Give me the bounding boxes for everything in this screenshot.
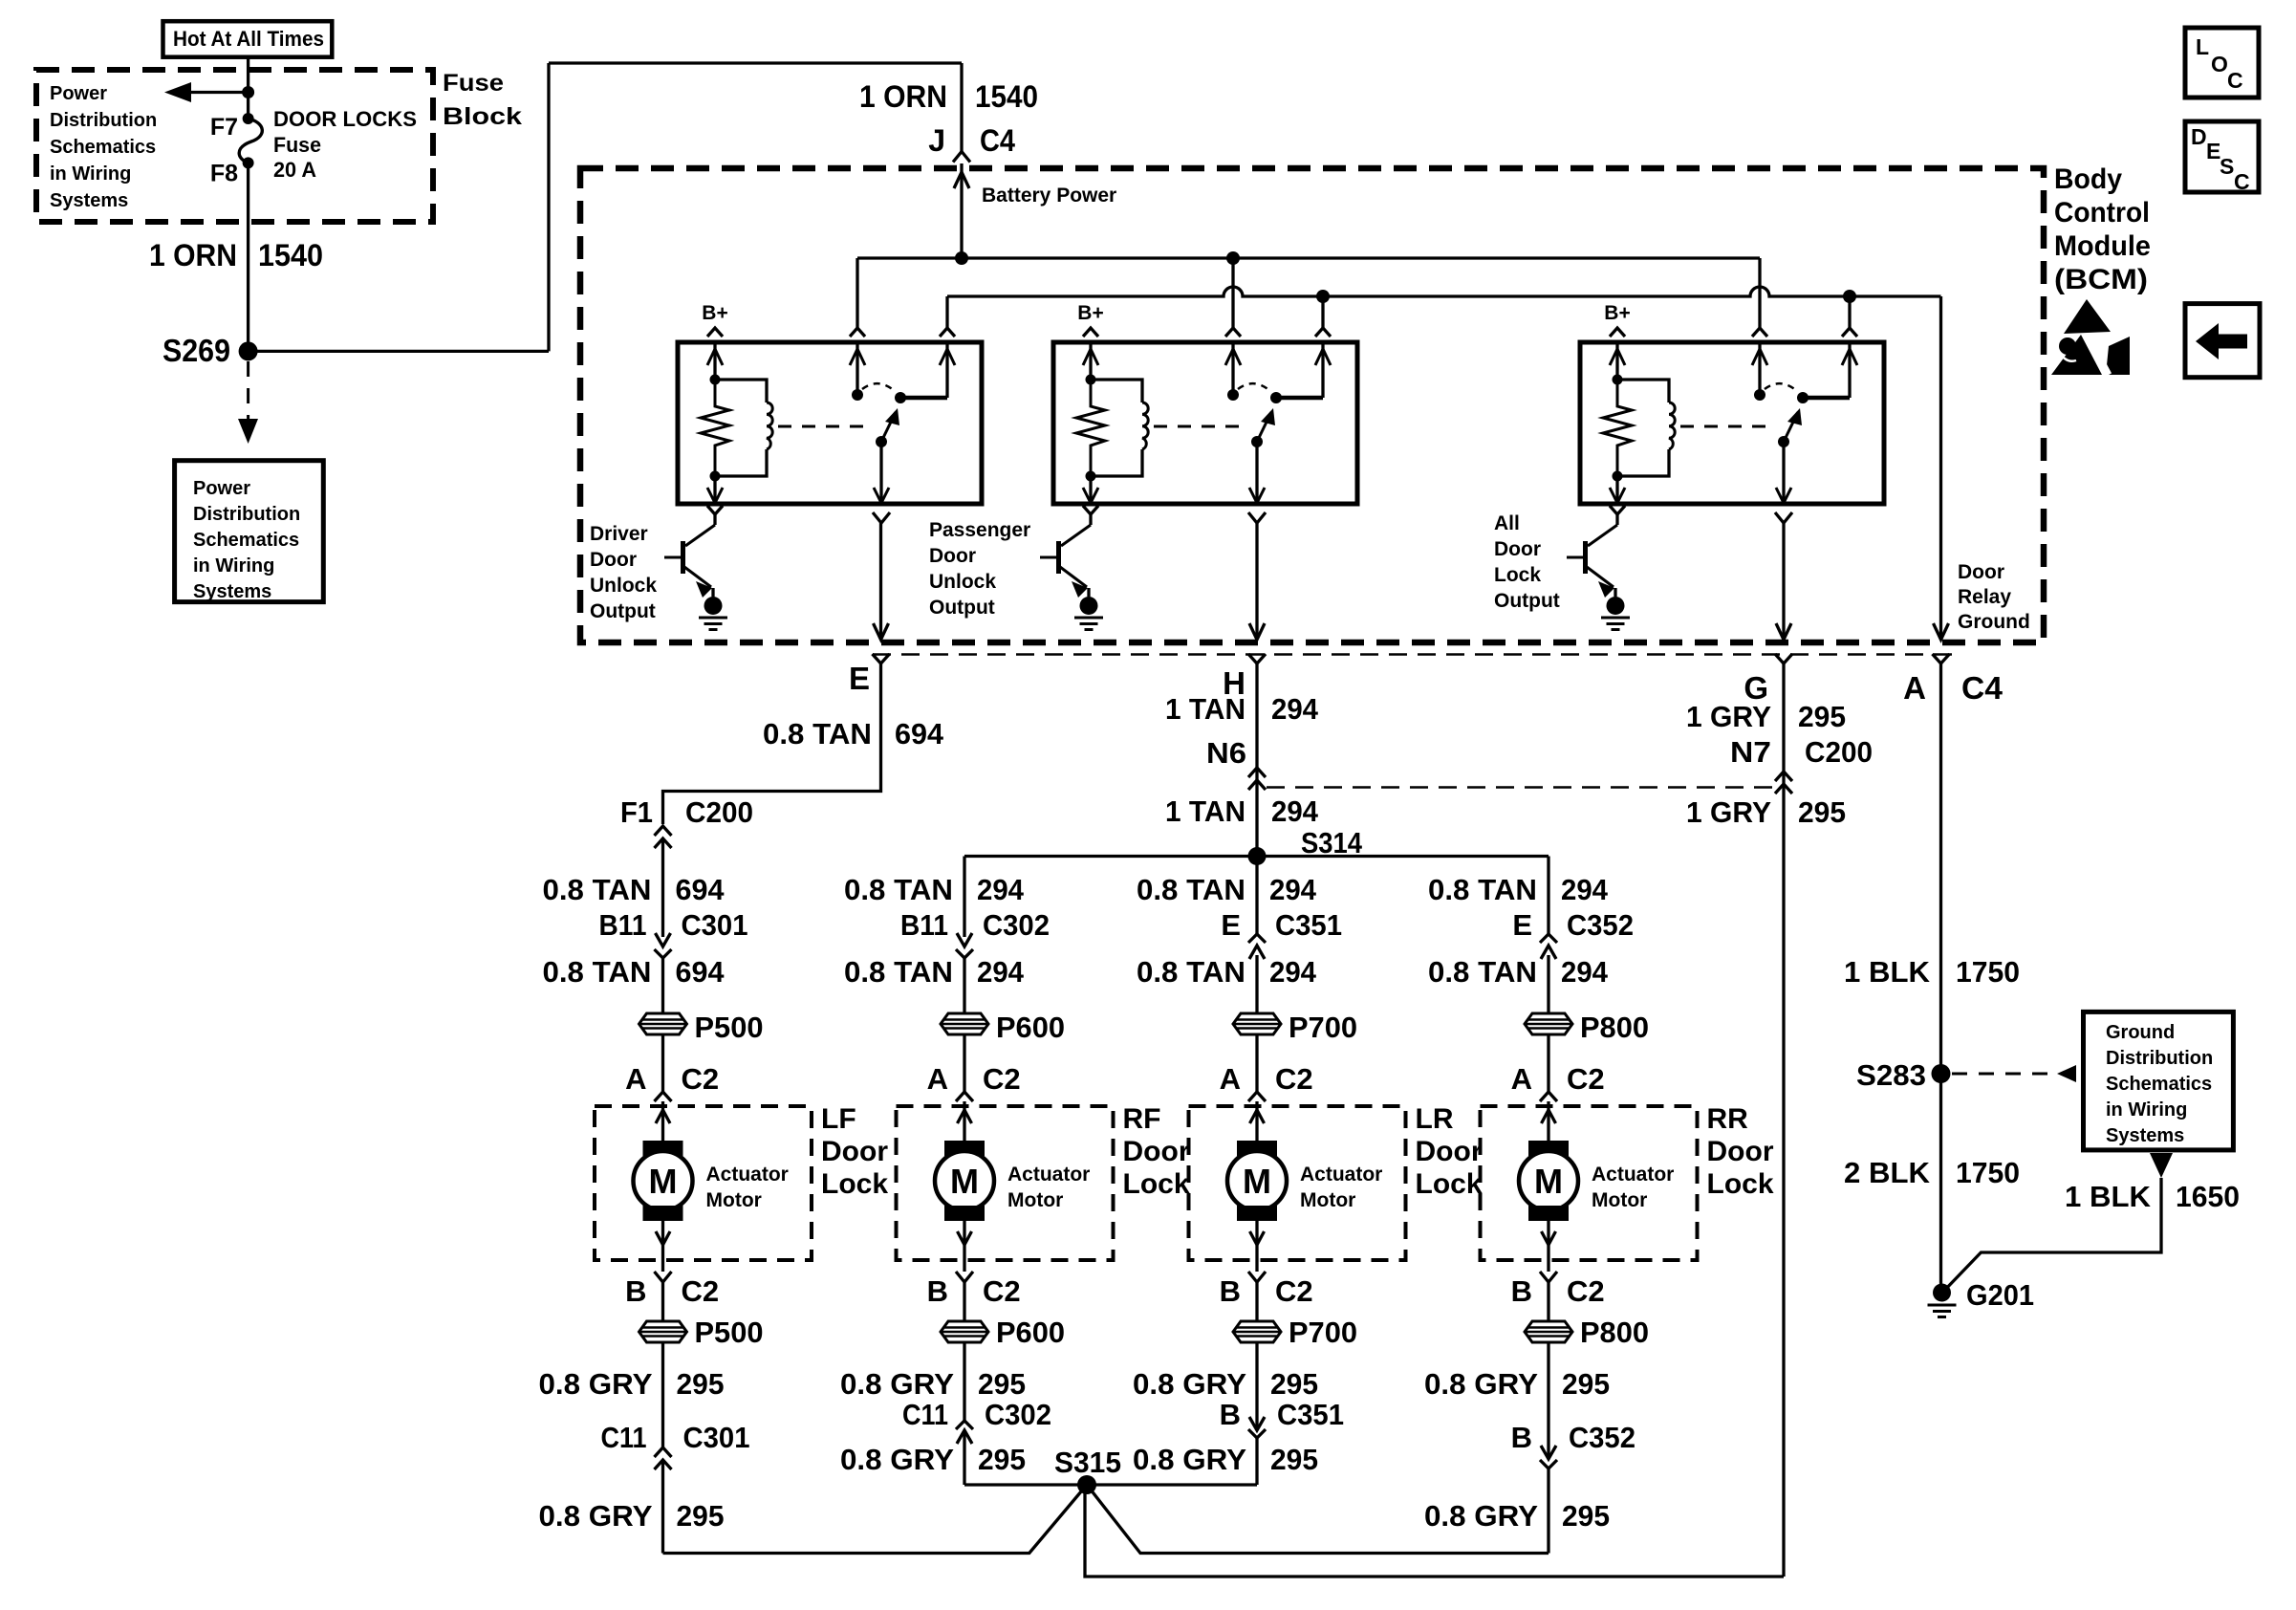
svg-text:Power: Power bbox=[50, 83, 107, 104]
svg-text:DOOR LOCKS: DOOR LOCKS bbox=[273, 107, 417, 131]
svg-text:295: 295 bbox=[1270, 1367, 1318, 1401]
svg-text:Lock: Lock bbox=[1494, 564, 1541, 586]
svg-text:2 BLK: 2 BLK bbox=[1844, 1156, 1931, 1189]
svg-text:C2: C2 bbox=[682, 1274, 720, 1308]
svg-text:Motor: Motor bbox=[706, 1189, 762, 1211]
common output chevron relay 3 bbox=[1775, 512, 1792, 523]
wire P600 to door lock connector bbox=[963, 1034, 965, 1092]
ground G201 bbox=[1933, 1284, 1951, 1302]
svg-text:0.8 TAN: 0.8 TAN bbox=[1428, 873, 1537, 906]
svg-text:294: 294 bbox=[1269, 873, 1317, 906]
svg-text:C200: C200 bbox=[1805, 735, 1873, 769]
svg-text:0.8 TAN: 0.8 TAN bbox=[1137, 955, 1245, 989]
svg-text:0.8 TAN: 0.8 TAN bbox=[1428, 955, 1537, 989]
svg-text:B: B bbox=[1220, 1398, 1241, 1431]
svg-text:P500: P500 bbox=[695, 1011, 764, 1044]
svg-text:D: D bbox=[2191, 124, 2207, 149]
svg-text:O: O bbox=[2211, 52, 2228, 76]
svg-text:in Wiring: in Wiring bbox=[2106, 1099, 2187, 1120]
svg-text:E: E bbox=[1512, 908, 1532, 942]
svg-text:Block: Block bbox=[443, 103, 522, 130]
connector C2 terminal B (branch 2) bbox=[956, 1272, 973, 1282]
svg-text:B: B bbox=[1220, 1274, 1241, 1308]
motor output wire (branch 2) bbox=[963, 1221, 965, 1272]
ground rail down to BCM pin A bbox=[1939, 296, 1942, 640]
svg-text:0.8 GRY: 0.8 GRY bbox=[539, 1367, 653, 1401]
wire relay1 common to pin E bbox=[879, 523, 882, 639]
pin A chevron bbox=[1933, 654, 1950, 664]
coil output chevron relay 1 bbox=[707, 506, 723, 514]
pin G chevron bbox=[1775, 654, 1792, 664]
svg-text:C4: C4 bbox=[1961, 670, 2004, 706]
svg-text:295: 295 bbox=[1562, 1367, 1610, 1401]
triangle connector below ground distribution box bbox=[2150, 1153, 2173, 1178]
ESD sensitivity symbol bbox=[2051, 335, 2102, 375]
svg-text:LR: LR bbox=[1416, 1103, 1454, 1135]
svg-text:M: M bbox=[649, 1162, 678, 1201]
svg-text:Fuse: Fuse bbox=[443, 70, 504, 97]
svg-text:Output: Output bbox=[590, 600, 656, 622]
svg-text:0.8 TAN: 0.8 TAN bbox=[543, 955, 652, 989]
dashed reference arrow S283 to ground distribution box bbox=[1952, 1073, 2057, 1076]
svg-text:F8: F8 bbox=[210, 161, 238, 187]
svg-text:294: 294 bbox=[977, 955, 1025, 989]
svg-text:Unlock: Unlock bbox=[590, 575, 657, 597]
svg-text:C302: C302 bbox=[983, 908, 1050, 942]
rail end down to relay1 contact pin bbox=[945, 296, 948, 328]
svg-text:0.8 GRY: 0.8 GRY bbox=[840, 1367, 954, 1401]
svg-text:1 GRY: 1 GRY bbox=[1686, 700, 1771, 733]
reference box Power Distribution Schematics in Wiring Systems bbox=[175, 461, 324, 602]
svg-text:Relay: Relay bbox=[1958, 586, 2011, 608]
motor output wire (branch 3) bbox=[1255, 1221, 1258, 1272]
svg-text:A: A bbox=[1220, 1062, 1241, 1096]
svg-text:0.8 TAN: 0.8 TAN bbox=[844, 955, 953, 989]
contact pin chevron relay 3 bbox=[1842, 328, 1857, 337]
label box "Hot At All Times" bbox=[163, 21, 333, 57]
svg-text:L: L bbox=[2196, 34, 2209, 59]
svg-text:M: M bbox=[950, 1162, 979, 1201]
S315 collection rail bbox=[964, 1483, 1257, 1486]
wire pin E down-left to C200 F1 bbox=[663, 664, 881, 824]
svg-text:RF: RF bbox=[1123, 1103, 1161, 1135]
inline connector P600 (upper) bbox=[941, 1013, 988, 1034]
wire relay3 common to pin G bbox=[1782, 523, 1785, 639]
svg-text:All: All bbox=[1494, 512, 1520, 534]
branch1 return to S315 bbox=[663, 1485, 1088, 1554]
svg-text:P600: P600 bbox=[996, 1316, 1065, 1349]
svg-text:1750: 1750 bbox=[1956, 1156, 2020, 1189]
svg-text:M: M bbox=[1243, 1162, 1271, 1201]
svg-text:Ground: Ground bbox=[1958, 611, 2030, 633]
svg-text:C11: C11 bbox=[601, 1421, 647, 1454]
svg-text:C: C bbox=[2227, 68, 2243, 93]
svg-text:Door: Door bbox=[1494, 538, 1541, 560]
svg-text:295: 295 bbox=[1798, 795, 1846, 829]
svg-text:0.8 TAN: 0.8 TAN bbox=[543, 873, 652, 906]
svg-text:LF: LF bbox=[821, 1103, 856, 1135]
actuator motor M (branch 3) bbox=[1255, 1101, 1258, 1141]
svg-text:C352: C352 bbox=[1567, 908, 1634, 942]
wire P700 to door lock connector bbox=[1255, 1034, 1258, 1092]
svg-text:Unlock: Unlock bbox=[929, 571, 996, 593]
svg-text:Power: Power bbox=[193, 478, 250, 499]
svg-text:Door: Door bbox=[1707, 1136, 1774, 1167]
svg-text:B: B bbox=[927, 1274, 948, 1308]
connector C2 terminal B (branch 1) bbox=[655, 1272, 672, 1282]
svg-text:Lock: Lock bbox=[1416, 1168, 1483, 1200]
svg-text:0.8 GRY: 0.8 GRY bbox=[1133, 1443, 1246, 1476]
svg-text:Motor: Motor bbox=[1592, 1189, 1647, 1211]
branch4 return to S315 bbox=[1087, 1485, 1549, 1554]
svg-text:S314: S314 bbox=[1301, 826, 1363, 859]
svg-text:0.8 GRY: 0.8 GRY bbox=[1133, 1367, 1246, 1401]
svg-text:C200: C200 bbox=[685, 795, 753, 829]
svg-text:Fuse: Fuse bbox=[273, 133, 321, 157]
svg-text:S283: S283 bbox=[1856, 1058, 1926, 1092]
svg-text:Lock: Lock bbox=[1123, 1168, 1190, 1200]
svg-text:A: A bbox=[1903, 670, 1926, 706]
door lock actuator dashed box (branch 2) bbox=[897, 1106, 1114, 1260]
svg-text:295: 295 bbox=[1270, 1443, 1318, 1476]
switch pin chevron relay 2 bbox=[1225, 328, 1241, 337]
svg-text:Actuator: Actuator bbox=[706, 1164, 789, 1186]
inline connector P500 (lower) bbox=[639, 1321, 687, 1342]
svg-text:Systems: Systems bbox=[50, 190, 128, 211]
wire J into BCM bbox=[960, 163, 963, 258]
svg-text:Schematics: Schematics bbox=[50, 137, 156, 158]
wire P800 to door lock connector bbox=[1547, 1034, 1549, 1092]
svg-text:1 ORN: 1 ORN bbox=[149, 238, 237, 272]
svg-text:Output: Output bbox=[1494, 590, 1560, 612]
svg-text:Output: Output bbox=[929, 597, 995, 619]
svg-text:B+: B+ bbox=[1077, 302, 1103, 324]
svg-text:294: 294 bbox=[1271, 692, 1319, 726]
svg-text:Actuator: Actuator bbox=[1007, 1164, 1090, 1186]
svg-text:Schematics: Schematics bbox=[2106, 1074, 2212, 1095]
junction dot to relay3 contact pin bbox=[1843, 290, 1856, 303]
svg-text:0.8 TAN: 0.8 TAN bbox=[763, 717, 872, 751]
svg-text:694: 694 bbox=[676, 955, 726, 989]
svg-text:B11: B11 bbox=[900, 908, 948, 942]
svg-text:1 BLK: 1 BLK bbox=[2065, 1180, 2152, 1213]
svg-text:295: 295 bbox=[677, 1367, 725, 1401]
connector C2 terminal B (branch 3) bbox=[1248, 1272, 1266, 1282]
passenger door unlock relay K2 bbox=[1053, 342, 1357, 504]
wire P500 to door lock connector bbox=[661, 1034, 664, 1092]
svg-text:Control: Control bbox=[2054, 197, 2150, 228]
svg-text:Actuator: Actuator bbox=[1592, 1164, 1674, 1186]
coil output chevron relay 3 bbox=[1610, 506, 1625, 514]
arrow to power distribution schematics (left) bbox=[189, 91, 249, 94]
door lock actuator dashed box (branch 1) bbox=[595, 1106, 812, 1260]
wire pin G down (1 GRY 295) bbox=[1782, 664, 1785, 1577]
svg-text:694: 694 bbox=[895, 717, 944, 751]
wire rail to relay3 switch pin bbox=[1758, 258, 1761, 328]
svg-text:Passenger: Passenger bbox=[929, 519, 1030, 541]
S314 distribution rail bbox=[964, 855, 1549, 858]
svg-text:Door: Door bbox=[1416, 1136, 1483, 1167]
pin E chevron bbox=[873, 654, 890, 664]
svg-text:1 BLK: 1 BLK bbox=[1844, 955, 1931, 989]
svg-text:Ground: Ground bbox=[2106, 1022, 2175, 1043]
svg-text:C2: C2 bbox=[682, 1062, 720, 1096]
svg-text:C301: C301 bbox=[682, 908, 748, 942]
svg-text:S269: S269 bbox=[162, 333, 230, 368]
svg-text:Lock: Lock bbox=[821, 1168, 888, 1200]
svg-text:in Wiring: in Wiring bbox=[50, 163, 131, 185]
svg-text:B: B bbox=[1511, 1421, 1532, 1454]
svg-text:Actuator: Actuator bbox=[1300, 1164, 1382, 1186]
svg-text:Distribution: Distribution bbox=[193, 504, 300, 525]
svg-text:C2: C2 bbox=[1275, 1274, 1313, 1308]
S315 to door relay ground wire bbox=[1085, 1485, 1784, 1577]
BCM dashed border bbox=[580, 168, 2044, 642]
inline connector P800 (lower) bbox=[1525, 1321, 1572, 1342]
svg-text:0.8 TAN: 0.8 TAN bbox=[1137, 873, 1245, 906]
connector C200 dashed face (N6-N7) bbox=[1267, 786, 1775, 789]
wire F8 to S269 - 1 ORN 1540 bbox=[247, 163, 249, 351]
svg-text:295: 295 bbox=[677, 1499, 725, 1533]
svg-text:P700: P700 bbox=[1289, 1316, 1357, 1349]
svg-text:B+: B+ bbox=[702, 302, 727, 324]
switch pin chevron relay 1 bbox=[850, 328, 865, 337]
svg-text:C301: C301 bbox=[683, 1421, 750, 1454]
wire rail to relay2 switch pin bbox=[1231, 258, 1234, 328]
svg-text:0.8 GRY: 0.8 GRY bbox=[1424, 1367, 1538, 1401]
svg-text:Hot At All Times: Hot At All Times bbox=[173, 27, 324, 51]
inline connector P800 (upper) bbox=[1525, 1013, 1572, 1034]
svg-text:Schematics: Schematics bbox=[193, 530, 299, 551]
svg-text:0.8 GRY: 0.8 GRY bbox=[539, 1499, 653, 1533]
all door lock output transistor Q3 bbox=[1567, 514, 1630, 630]
wire S269 to BCM battery feed bbox=[249, 350, 549, 353]
svg-text:C2: C2 bbox=[1567, 1062, 1605, 1096]
svg-text:N6: N6 bbox=[1206, 736, 1246, 770]
svg-text:294: 294 bbox=[977, 873, 1025, 906]
svg-text:P600: P600 bbox=[996, 1011, 1065, 1044]
common output chevron relay 1 bbox=[873, 512, 890, 523]
svg-text:294: 294 bbox=[1561, 955, 1609, 989]
svg-text:294: 294 bbox=[1269, 955, 1317, 989]
svg-text:Door: Door bbox=[929, 545, 976, 567]
junction dot battery feed bbox=[955, 251, 968, 265]
B+ chevron relay 2 bbox=[1083, 328, 1098, 337]
svg-text:P700: P700 bbox=[1289, 1011, 1357, 1044]
dashed arrow S269 down to power distribution box bbox=[247, 361, 249, 428]
svg-text:F7: F7 bbox=[210, 114, 238, 141]
svg-text:C302: C302 bbox=[985, 1398, 1051, 1431]
svg-text:C352: C352 bbox=[1569, 1421, 1635, 1454]
B+ chevron relay 3 bbox=[1610, 328, 1625, 337]
svg-text:694: 694 bbox=[676, 873, 726, 906]
sidebar box DESC bbox=[2185, 121, 2259, 192]
svg-text:Motor: Motor bbox=[1007, 1189, 1063, 1211]
svg-text:Door: Door bbox=[821, 1136, 888, 1167]
svg-text:1750: 1750 bbox=[1956, 955, 2020, 989]
junction dot to relay2 contact pin bbox=[1316, 290, 1330, 303]
actuator motor M (branch 4) bbox=[1547, 1101, 1549, 1141]
svg-text:B+: B+ bbox=[1604, 302, 1630, 324]
svg-text:C351: C351 bbox=[1275, 908, 1342, 942]
inline connector P700 (upper) bbox=[1233, 1013, 1281, 1034]
svg-text:Door: Door bbox=[1958, 561, 2004, 583]
svg-text:295: 295 bbox=[978, 1367, 1026, 1401]
svg-text:P500: P500 bbox=[695, 1316, 764, 1349]
svg-text:J: J bbox=[928, 123, 945, 158]
inline connector P700 (lower) bbox=[1233, 1321, 1281, 1342]
svg-text:Distribution: Distribution bbox=[2106, 1048, 2213, 1069]
svg-text:E: E bbox=[1221, 908, 1241, 942]
svg-text:295: 295 bbox=[1562, 1499, 1610, 1533]
svg-text:B: B bbox=[1511, 1274, 1532, 1308]
svg-text:1 TAN: 1 TAN bbox=[1165, 692, 1245, 726]
svg-text:Body: Body bbox=[2054, 163, 2122, 195]
svg-text:Systems: Systems bbox=[2106, 1125, 2184, 1146]
svg-text:Battery Power: Battery Power bbox=[982, 185, 1116, 207]
wire from Hot At All Times into fuse block bbox=[247, 57, 249, 119]
svg-text:1540: 1540 bbox=[258, 238, 323, 272]
switch pin chevron relay 3 bbox=[1752, 328, 1767, 337]
svg-text:B11: B11 bbox=[599, 908, 647, 942]
sidebar box LOC bbox=[2185, 28, 2259, 98]
svg-text:RR: RR bbox=[1707, 1103, 1749, 1135]
svg-text:S315: S315 bbox=[1054, 1446, 1121, 1479]
B+ chevron relay 1 bbox=[707, 328, 723, 337]
svg-text:B: B bbox=[625, 1274, 646, 1308]
svg-text:1 GRY: 1 GRY bbox=[1686, 795, 1771, 829]
connector C4 dashed face line bbox=[873, 653, 1956, 656]
svg-text:C2: C2 bbox=[983, 1062, 1021, 1096]
inline connector P500 (upper) bbox=[639, 1013, 687, 1034]
svg-text:M: M bbox=[1534, 1162, 1563, 1201]
svg-text:0.8 GRY: 0.8 GRY bbox=[1424, 1499, 1538, 1533]
svg-text:C2: C2 bbox=[1567, 1274, 1605, 1308]
svg-text:A: A bbox=[1511, 1062, 1532, 1096]
connector C2 terminal B (branch 4) bbox=[1540, 1272, 1557, 1282]
svg-text:Module: Module bbox=[2054, 230, 2151, 262]
svg-text:Door: Door bbox=[590, 549, 637, 571]
wire relay2 common to pin H bbox=[1255, 523, 1258, 639]
connector chevron J/C4 bbox=[953, 152, 970, 163]
svg-text:(BCM): (BCM) bbox=[2054, 264, 2148, 295]
svg-text:C2: C2 bbox=[1275, 1062, 1313, 1096]
svg-text:Distribution: Distribution bbox=[50, 110, 157, 131]
svg-text:A: A bbox=[927, 1062, 948, 1096]
svg-text:C2: C2 bbox=[983, 1274, 1021, 1308]
svg-text:0.8 GRY: 0.8 GRY bbox=[840, 1443, 954, 1476]
svg-text:295: 295 bbox=[1798, 700, 1846, 733]
svg-text:C4: C4 bbox=[980, 123, 1015, 158]
reference box Ground Distribution Schematics in Wiring Systems bbox=[2084, 1012, 2234, 1150]
node on feed wire bbox=[242, 86, 254, 98]
wire pin A down to G201 (1 BLK 1750) bbox=[1939, 664, 1942, 1293]
svg-text:1 TAN: 1 TAN bbox=[1165, 794, 1245, 828]
door relay ground arrow at pin A bbox=[1934, 623, 1949, 640]
actuator motor M (branch 1) bbox=[661, 1101, 664, 1141]
wire 1 BLK 1650 from ground distribution to G201 bbox=[1942, 1178, 2161, 1293]
all door lock relay K3 bbox=[1580, 342, 1884, 504]
door relay ground rail (lower) with hops bbox=[947, 287, 1941, 296]
svg-text:C351: C351 bbox=[1277, 1398, 1344, 1431]
svg-text:E: E bbox=[849, 661, 870, 696]
inline connector P600 (lower) bbox=[941, 1321, 988, 1342]
pin H chevron bbox=[1248, 654, 1266, 664]
contact pin chevron relay 2 bbox=[1315, 328, 1331, 337]
svg-text:F1: F1 bbox=[620, 795, 653, 829]
svg-text:1540: 1540 bbox=[975, 79, 1038, 114]
svg-text:1650: 1650 bbox=[2176, 1180, 2240, 1213]
contact pin chevron relay 1 bbox=[940, 328, 955, 337]
junction dot to relay2 switch bbox=[1226, 251, 1240, 265]
fuse block dashed box bbox=[36, 70, 433, 222]
svg-text:in Wiring: in Wiring bbox=[193, 555, 274, 577]
svg-text:A: A bbox=[625, 1062, 646, 1096]
battery power rail (upper) bbox=[857, 256, 1760, 259]
door lock actuator dashed box (branch 4) bbox=[1481, 1106, 1698, 1260]
svg-text:C: C bbox=[2234, 169, 2250, 194]
svg-text:Door: Door bbox=[1123, 1136, 1190, 1167]
svg-text:20 A: 20 A bbox=[273, 158, 316, 182]
svg-text:1 ORN: 1 ORN bbox=[859, 79, 947, 114]
svg-text:294: 294 bbox=[1271, 794, 1319, 828]
motor output wire (branch 1) bbox=[661, 1221, 664, 1272]
svg-text:P800: P800 bbox=[1580, 1316, 1649, 1349]
svg-text:C11: C11 bbox=[902, 1398, 948, 1431]
svg-text:G201: G201 bbox=[1966, 1278, 2034, 1312]
motor output wire (branch 4) bbox=[1547, 1221, 1549, 1272]
door lock actuator dashed box (branch 3) bbox=[1189, 1106, 1406, 1260]
svg-text:294: 294 bbox=[1561, 873, 1609, 906]
actuator motor M (branch 2) bbox=[963, 1101, 965, 1141]
driver door unlock output transistor Q1 bbox=[664, 514, 727, 630]
svg-text:Systems: Systems bbox=[193, 581, 271, 602]
svg-text:S: S bbox=[2220, 154, 2234, 179]
passenger door unlock output transistor Q2 bbox=[1040, 514, 1103, 630]
svg-text:Driver: Driver bbox=[590, 523, 648, 545]
svg-text:295: 295 bbox=[978, 1443, 1026, 1476]
wire rail to relay1 switch pin bbox=[856, 258, 858, 328]
svg-text:0.8 TAN: 0.8 TAN bbox=[844, 873, 953, 906]
common output chevron relay 2 bbox=[1248, 512, 1266, 523]
wire pin H down to S314 bbox=[1255, 664, 1258, 857]
svg-text:P800: P800 bbox=[1580, 1011, 1649, 1044]
driver door unlock relay K1 bbox=[678, 342, 982, 504]
coil output chevron relay 2 bbox=[1083, 506, 1098, 514]
sidebar box back-arrow bbox=[2185, 304, 2260, 378]
svg-text:Lock: Lock bbox=[1707, 1168, 1774, 1200]
svg-text:N7: N7 bbox=[1730, 735, 1771, 769]
svg-text:Motor: Motor bbox=[1300, 1189, 1355, 1211]
